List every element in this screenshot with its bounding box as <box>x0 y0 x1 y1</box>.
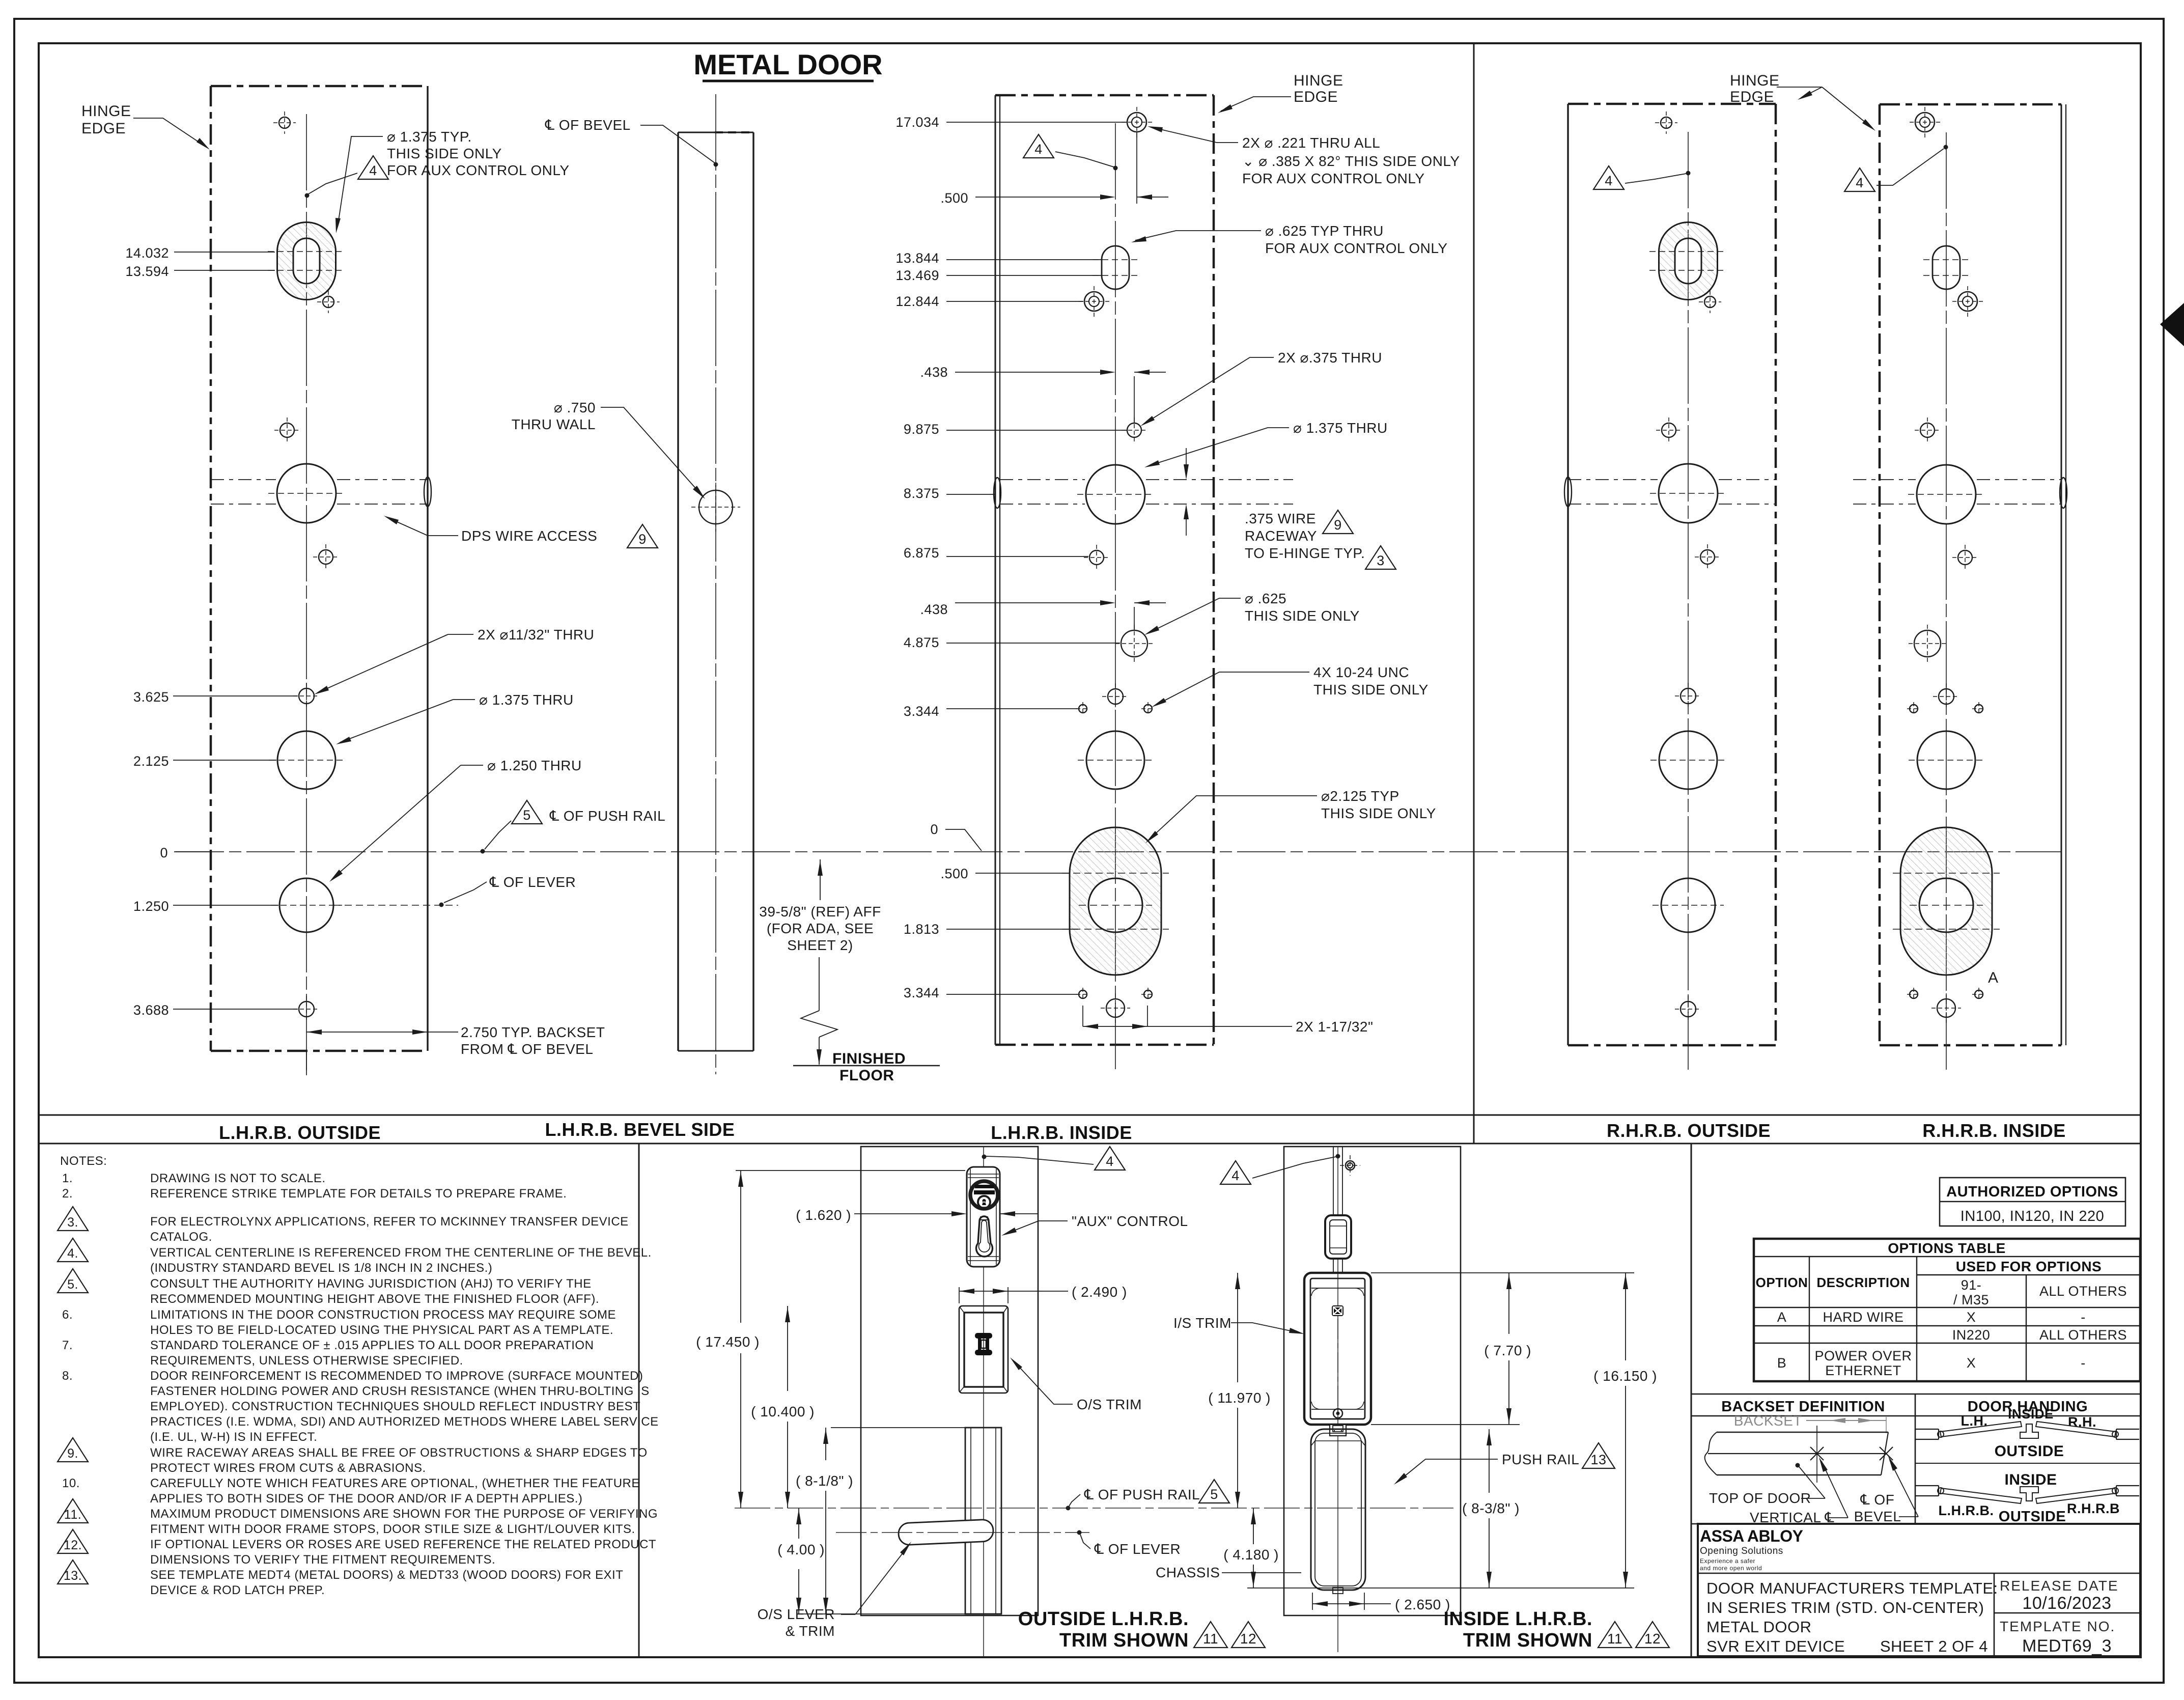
L.H.R.B. INSIDE screw 10-24 lower left <box>1079 990 1087 998</box>
R.H.R.B. OUTSIDE DPS wire access circle 1.375 <box>1659 464 1718 523</box>
svg-text:LIMITATIONS IN THE DOOR CONSTR: LIMITATIONS IN THE DOOR CONSTRUCTION PRO… <box>150 1308 616 1322</box>
svg-text:( 10.400 ): ( 10.400 ) <box>751 1404 815 1419</box>
svg-text:⌀ 1.375 THRU: ⌀ 1.375 THRU <box>1293 420 1388 436</box>
svg-text:(INDUSTRY STANDARD BEVEL IS 1/: (INDUSTRY STANDARD BEVEL IS 1/8 INCH IN … <box>150 1261 492 1275</box>
L.H.R.B. OUTSIDE hole 11/32 at 9.875 <box>280 423 294 437</box>
svg-text:4: 4 <box>1856 175 1864 190</box>
svg-text:& TRIM: & TRIM <box>786 1623 835 1639</box>
svg-text:11: 11 <box>1607 1631 1622 1647</box>
svg-text:METAL DOOR: METAL DOOR <box>1706 1618 1812 1636</box>
svg-text:( 8-1/8" ): ( 8-1/8" ) <box>796 1473 853 1489</box>
svg-text:12.844: 12.844 <box>895 294 939 309</box>
svg-text:℄ OF LEVER: ℄ OF LEVER <box>489 874 576 890</box>
svg-text:7.: 7. <box>62 1339 73 1352</box>
svg-text:EDGE: EDGE <box>81 120 126 137</box>
svg-text:39-5/8" (REF) AFF: 39-5/8" (REF) AFF <box>759 904 881 919</box>
svg-text:TOP OF DOOR: TOP OF DOOR <box>1709 1490 1811 1506</box>
svg-text:2X 1-17/32": 2X 1-17/32" <box>1296 1019 1373 1035</box>
svg-text:X: X <box>1967 1309 1976 1325</box>
R.H.R.B. INSIDE screw 10-24 right <box>1975 705 1983 713</box>
svg-text:INSIDE: INSIDE <box>2004 1471 2057 1488</box>
L.H.R.B. INSIDE vertical centerline <box>1115 123 1116 1069</box>
L.H.R.B. INSIDE hole .375 at 6.875 <box>1089 550 1104 565</box>
R.H.R.B. INSIDE aux screw washer lower <box>1958 292 1977 311</box>
L.H.R.B. INSIDE wire raceway lower line <box>1000 504 1085 505</box>
svg-text:RELEASE DATE: RELEASE DATE <box>2000 1578 2119 1594</box>
backset-handing header boxes <box>1691 1394 2140 1395</box>
svg-text:THIS SIDE ONLY: THIS SIDE ONLY <box>1245 608 1360 624</box>
svg-text:FASTENER HOLDING POWER AND CRU: FASTENER HOLDING POWER AND CRUSH RESISTA… <box>150 1384 650 1398</box>
svg-text:DOOR MANUFACTURERS TEMPLATE:: DOOR MANUFACTURERS TEMPLATE: <box>1706 1579 1998 1597</box>
svg-text:THRU WALL: THRU WALL <box>512 416 596 432</box>
svg-text:10.: 10. <box>62 1476 80 1490</box>
L.H.R.B. OUTSIDE screw hole .221 upper <box>279 117 290 128</box>
svg-text:O/S TRIM: O/S TRIM <box>1077 1397 1142 1412</box>
bevel side left edge <box>677 132 679 1051</box>
svg-text:FOR AUX CONTROL ONLY: FOR AUX CONTROL ONLY <box>1265 240 1448 256</box>
svg-text:"AUX" CONTROL: "AUX" CONTROL <box>1072 1213 1188 1229</box>
svg-text:℄ OF PUSH RAIL: ℄ OF PUSH RAIL <box>549 808 665 824</box>
svg-text:5: 5 <box>523 807 531 823</box>
inside trim centerline <box>1337 1147 1338 1652</box>
svg-text:ALL OTHERS: ALL OTHERS <box>2039 1327 2127 1343</box>
svg-text:.438: .438 <box>920 602 948 617</box>
svg-text:APPLIES TO BOTH SIDES OF THE D: APPLIES TO BOTH SIDES OF THE DOOR AND/OR… <box>150 1492 582 1506</box>
svg-text:13: 13 <box>1590 1452 1606 1467</box>
svg-text:METAL DOOR: METAL DOOR <box>693 48 882 80</box>
svg-text:FLOOR: FLOOR <box>839 1067 894 1084</box>
dim .438 arrows lower <box>1100 600 1115 605</box>
svg-text:DPS WIRE ACCESS: DPS WIRE ACCESS <box>461 528 597 544</box>
svg-text:TO E-HINGE TYP.: TO E-HINGE TYP. <box>1245 545 1365 561</box>
svg-text:9.: 9. <box>67 1446 78 1461</box>
R.H.R.B. INSIDE hinge edge (dashed) <box>1879 104 1881 1045</box>
svg-text:1.: 1. <box>62 1172 73 1185</box>
R.H.R.B. OUTSIDE screw hole .221 upper <box>1661 117 1672 128</box>
svg-text:( 4.00 ): ( 4.00 ) <box>777 1542 825 1557</box>
svg-text:CONSULT THE AUTHORITY HAVING J: CONSULT THE AUTHORITY HAVING JURISDICTIO… <box>150 1277 592 1291</box>
svg-text:2.125: 2.125 <box>133 754 169 769</box>
svg-text:3.625: 3.625 <box>133 689 169 705</box>
R.H.R.B. INSIDE chassis hole 1.375 at 8.375 <box>1917 465 1976 524</box>
R.H.R.B. OUTSIDE wire raceway lower line <box>1568 504 1658 505</box>
svg-text:⌀ .625 TYP THRU: ⌀ .625 TYP THRU <box>1265 223 1384 239</box>
L.H.R.B. INSIDE hole 1.375 at 2.125 <box>1086 731 1144 789</box>
svg-text:IN100, IN120, IN 220: IN100, IN120, IN 220 <box>1961 1208 2104 1224</box>
svg-text:( 11.970 ): ( 11.970 ) <box>1208 1390 1271 1406</box>
svg-text:CAREFULLY NOTE WHICH FEATURES: CAREFULLY NOTE WHICH FEATURES ARE OPTION… <box>150 1476 640 1490</box>
R.H.R.B. INSIDE vertical centerline <box>1946 132 1947 1070</box>
svg-text:DOOR REINFORCEMENT IS RECOMMEN: DOOR REINFORCEMENT IS RECOMMENDED TO IMP… <box>150 1369 643 1383</box>
O/S trim box <box>959 1306 1008 1393</box>
svg-text:EDGE: EDGE <box>1294 89 1338 105</box>
AFF dimension line lower with break <box>819 957 820 1011</box>
L.H.R.B. OUTSIDE wire raceway lower line <box>211 504 276 505</box>
bevel side bottom edge <box>678 1050 753 1052</box>
svg-text:DRAWING IS NOT TO SCALE.: DRAWING IS NOT TO SCALE. <box>150 1172 326 1185</box>
L.H.R.B. OUTSIDE hinge edge (dashed) <box>210 86 212 1051</box>
svg-text:12: 12 <box>1240 1631 1256 1647</box>
R.H.R.B. OUTSIDE hole 11/32 at 3.688 <box>1681 1001 1696 1017</box>
svg-text:.438: .438 <box>920 365 948 380</box>
svg-text:NOTES:: NOTES: <box>60 1154 107 1168</box>
svg-text:O/S LEVER: O/S LEVER <box>758 1606 835 1622</box>
svg-text:9: 9 <box>638 532 647 547</box>
svg-text:/ M35: / M35 <box>1953 1292 1989 1307</box>
R.H.R.B. OUTSIDE hole 11/32 at 6.875 <box>1700 550 1715 564</box>
L.H.R.B. INSIDE hole .625 at 4.875 <box>1121 630 1147 657</box>
svg-text:3.: 3. <box>67 1215 78 1230</box>
svg-text:HINGE: HINGE <box>81 103 131 120</box>
inside trim door stile <box>1284 1147 1461 1615</box>
svg-text:FOR AUX CONTROL ONLY: FOR AUX CONTROL ONLY <box>1242 171 1425 186</box>
L.H.R.B. OUTSIDE raceway end ellipse on lock edge <box>424 477 431 507</box>
lever centerline <box>836 1532 1089 1533</box>
svg-text:FOR AUX CONTROL ONLY: FOR AUX CONTROL ONLY <box>387 162 570 178</box>
outside trim centerline <box>983 1147 984 1657</box>
L.H.R.B. OUTSIDE wire raceway upper line <box>211 479 276 480</box>
L.H.R.B. INSIDE aux screw washer lower <box>1084 292 1104 311</box>
svg-text:.500: .500 <box>940 190 968 206</box>
svg-text:A: A <box>1988 969 1999 986</box>
svg-text:IF OPTIONAL LEVERS OR ROSES AR: IF OPTIONAL LEVERS OR ROSES ARE USED REF… <box>150 1538 656 1551</box>
svg-text:4: 4 <box>1034 142 1043 157</box>
svg-text:FINISHED: FINISHED <box>832 1050 906 1067</box>
outside lever <box>898 1519 994 1545</box>
bevel centerline <box>715 94 716 1074</box>
svg-text:3: 3 <box>1377 553 1385 568</box>
svg-text:VERTICAL CENTERLINE IS REFEREN: VERTICAL CENTERLINE IS REFERENCED FROM T… <box>150 1246 652 1260</box>
R.H.R.B. INSIDE screw 10-24 left <box>1910 705 1918 713</box>
svg-text:L.H.R.B. OUTSIDE: L.H.R.B. OUTSIDE <box>219 1122 381 1143</box>
R.H.R.B. INSIDE hole .375 at 6.875 <box>1958 550 1972 565</box>
push-rail centerline y=0 across sheet <box>176 851 2062 852</box>
svg-text:⌀2.125 TYP: ⌀2.125 TYP <box>1321 788 1399 804</box>
svg-text:TEMPLATE NO.: TEMPLATE NO. <box>2000 1619 2115 1634</box>
backset door section <box>1705 1432 1717 1475</box>
svg-text:R.H.R.B. INSIDE: R.H.R.B. INSIDE <box>1922 1120 2066 1141</box>
svg-text:Opening Solutions: Opening Solutions <box>1700 1546 1783 1556</box>
svg-text:AUTHORIZED OPTIONS: AUTHORIZED OPTIONS <box>1946 1184 2118 1200</box>
svg-text:4: 4 <box>1106 1154 1114 1169</box>
inside aux device <box>1333 1147 1334 1214</box>
svg-text:13.844: 13.844 <box>895 250 939 266</box>
svg-text:⌄ ⌀ .385 X 82° THIS SIDE ONLY: ⌄ ⌀ .385 X 82° THIS SIDE ONLY <box>1242 153 1460 169</box>
L.H.R.B. OUTSIDE screw hole .221 lower <box>323 296 334 308</box>
dim 2.750 backset <box>306 1051 307 1074</box>
svg-text:4X 10-24 UNC: 4X 10-24 UNC <box>1313 664 1409 680</box>
L.H.R.B. INSIDE raceway end ellipse <box>994 478 1001 508</box>
svg-text:.500: .500 <box>940 866 968 881</box>
R.H.R.B. INSIDE wire raceway upper line <box>1853 479 1916 480</box>
L.H.R.B. INSIDE lever oval centerline dashes <box>1062 873 1169 874</box>
L.H.R.B. INSIDE panel top edge <box>995 94 1214 97</box>
svg-text:10/16/2023: 10/16/2023 <box>2022 1594 2111 1613</box>
raceway dim arrows <box>1186 448 1187 475</box>
svg-text:DEVICE & ROD LATCH PREP.: DEVICE & ROD LATCH PREP. <box>150 1583 325 1597</box>
svg-text:5.: 5. <box>67 1277 78 1292</box>
L.H.R.B. OUTSIDE DPS wire access circle 1.375 <box>277 464 336 523</box>
svg-text:-: - <box>2081 1355 2086 1371</box>
svg-text:.375 WIRE: .375 WIRE <box>1245 511 1316 526</box>
svg-text:HINGE: HINGE <box>1730 72 1780 89</box>
svg-text:REFERENCE STRIKE TEMPLATE FOR: REFERENCE STRIKE TEMPLATE FOR DETAILS TO… <box>150 1187 567 1201</box>
svg-text:13.594: 13.594 <box>125 264 169 279</box>
svg-text:⌀ 1.250 THRU: ⌀ 1.250 THRU <box>487 758 582 773</box>
R.H.R.B. INSIDE screw hole bottom center <box>1937 999 1955 1017</box>
svg-text:13.: 13. <box>64 1569 82 1583</box>
svg-text:USED FOR OPTIONS: USED FOR OPTIONS <box>1956 1259 2102 1274</box>
svg-text:⌀ .750: ⌀ .750 <box>554 400 596 415</box>
R.H.R.B. OUTSIDE oval centerline dashes <box>1649 251 1727 252</box>
triangle 4 flag inside trim <box>1220 1161 1251 1184</box>
svg-text:9: 9 <box>1334 517 1342 533</box>
L.H.R.B. INSIDE lock edge double line <box>995 95 996 1045</box>
svg-text:ETHERNET: ETHERNET <box>1825 1363 1901 1378</box>
svg-text:ASSA ABLOY: ASSA ABLOY <box>1700 1527 1803 1545</box>
svg-text:4.: 4. <box>67 1246 78 1261</box>
AFF dimension line upper <box>820 859 821 900</box>
svg-text:( 17.450 ): ( 17.450 ) <box>696 1334 760 1350</box>
R.H.R.B. OUTSIDE panel bottom edge <box>1568 1044 1776 1047</box>
divider notes/trim <box>638 1144 640 1657</box>
svg-text:EDGE: EDGE <box>1730 89 1774 105</box>
svg-text:EMPLOYED). CONSTRUCTION TECHNI: EMPLOYED). CONSTRUCTION TECHNIQUES SHOUL… <box>150 1400 640 1413</box>
L.H.R.B. INSIDE aux screw washer upper <box>1127 113 1146 132</box>
svg-text:Experience a safer: Experience a safer <box>1700 1557 1755 1565</box>
L.H.R.B. OUTSIDE hole 11/32 at 3.688 <box>299 1001 314 1017</box>
svg-text:MEDT69_3: MEDT69_3 <box>2022 1636 2112 1656</box>
svg-text:ALL OTHERS: ALL OTHERS <box>2039 1284 2127 1299</box>
svg-text:HOLES TO BE FIELD-LOCATED USIN: HOLES TO BE FIELD-LOCATED USING THE PHYS… <box>150 1323 613 1337</box>
divider LH/RH views <box>1473 43 1475 1144</box>
svg-text:SEE TEMPLATE MEDT4 (METAL DOOR: SEE TEMPLATE MEDT4 (METAL DOORS) & MEDT3… <box>150 1568 623 1582</box>
bottom extent line <box>1247 1587 1634 1588</box>
dim .500 arrows <box>1136 131 1137 204</box>
svg-text:17.034: 17.034 <box>895 115 939 130</box>
svg-text:⌀ 1.375 TYP.: ⌀ 1.375 TYP. <box>387 129 472 145</box>
svg-text:OUTSIDE L.H.R.B.: OUTSIDE L.H.R.B. <box>1018 1608 1189 1630</box>
dim .438 arrows top <box>1100 370 1115 375</box>
L.H.R.B. INSIDE screw 10-24 left <box>1079 705 1087 713</box>
svg-text:1.250: 1.250 <box>133 899 169 914</box>
triangle 4 flag R.OUT <box>1593 166 1624 189</box>
outside push rail <box>965 1428 1001 1614</box>
svg-text:8.: 8. <box>62 1369 73 1383</box>
svg-text:INSIDE: INSIDE <box>2008 1406 2054 1422</box>
svg-text:THIS SIDE ONLY: THIS SIDE ONLY <box>1321 805 1436 821</box>
svg-text:FROM ℄ OF BEVEL: FROM ℄ OF BEVEL <box>461 1041 593 1057</box>
L.H.R.B. OUTSIDE vertical centerline <box>306 114 307 1075</box>
svg-text:BEVEL: BEVEL <box>1854 1509 1901 1524</box>
R.H.R.B. INSIDE hole at 3.344 center <box>1939 689 1954 704</box>
svg-text:TRIM SHOWN: TRIM SHOWN <box>1463 1630 1592 1651</box>
svg-text:( 1.620 ): ( 1.620 ) <box>796 1207 851 1223</box>
R.H.R.B. INSIDE panel bottom edge <box>1880 1044 2061 1047</box>
L.H.R.B. INSIDE aux oval slot .625 <box>1102 246 1129 289</box>
bevel side top edge <box>678 132 753 133</box>
svg-text:11: 11 <box>1203 1631 1218 1647</box>
R.H.R.B. OUTSIDE vertical centerline <box>1688 132 1689 1070</box>
svg-text:2.: 2. <box>62 1187 73 1201</box>
svg-text:X: X <box>1967 1355 1976 1371</box>
R.H.R.B. INSIDE lever prep hatched oval 2.125 <box>1900 827 1992 975</box>
svg-text:8.375: 8.375 <box>904 486 939 501</box>
I/S trim box <box>1304 1273 1371 1425</box>
R.H.R.B. OUTSIDE hole 11/32 at 9.875 <box>1662 423 1676 437</box>
triangle 4 flag L.IN <box>1023 134 1054 158</box>
svg-text:9.875: 9.875 <box>904 422 939 437</box>
inside push rail <box>1311 1429 1365 1590</box>
R.H.R.B. INSIDE aux screw washer upper <box>1915 113 1935 132</box>
svg-text:℄ OF BEVEL: ℄ OF BEVEL <box>545 117 631 133</box>
svg-text:3.344: 3.344 <box>904 704 939 719</box>
svg-text:WIRE RACEWAY AREAS SHALL BE FR: WIRE RACEWAY AREAS SHALL BE FREE OF OBST… <box>150 1446 648 1460</box>
svg-text:PRACTICES (I.E. WDMA, SDI) AND: PRACTICES (I.E. WDMA, SDI) AND AUTHORIZE… <box>150 1415 659 1429</box>
inside trim top screw <box>1346 1161 1355 1170</box>
svg-text:IN SERIES TRIM (STD. ON-CENTER: IN SERIES TRIM (STD. ON-CENTER) <box>1706 1599 1984 1617</box>
triangle 4 flag R.IN <box>1844 168 1875 191</box>
view label strip bottom line <box>39 1143 2141 1145</box>
svg-text:and more open world: and more open world <box>1700 1565 1762 1572</box>
L.H.R.B. OUTSIDE aux control hatched oval 1.375 <box>277 222 336 299</box>
svg-text:2X ⌀.375 THRU: 2X ⌀.375 THRU <box>1278 350 1382 366</box>
R.H.R.B. INSIDE aux oval slot .625 <box>1933 246 1960 289</box>
dim 2X 1-17/32 <box>1082 1006 1083 1026</box>
R.H.R.B. OUTSIDE hole 1.250 lever at 1.250 <box>1661 878 1715 932</box>
svg-text:12: 12 <box>1644 1631 1661 1647</box>
svg-text:REQUIREMENTS, UNLESS OTHERWISE: REQUIREMENTS, UNLESS OTHERWISE SPECIFIED… <box>150 1354 463 1368</box>
svg-text:0: 0 <box>160 845 168 860</box>
svg-text:INSIDE L.H.R.B.: INSIDE L.H.R.B. <box>1443 1608 1592 1630</box>
svg-text:HINGE: HINGE <box>1294 72 1343 89</box>
svg-text:91-: 91- <box>1961 1277 1982 1293</box>
svg-text:(I.E. UL, W-H) IS IN EFFECT.: (I.E. UL, W-H) IS IN EFFECT. <box>150 1430 317 1444</box>
dim 2.490 <box>959 1287 960 1303</box>
svg-text:℄ OF PUSH RAIL: ℄ OF PUSH RAIL <box>1084 1487 1200 1502</box>
svg-text:SHEET 2 OF 4: SHEET 2 OF 4 <box>1880 1637 1988 1655</box>
svg-text:SHEET 2): SHEET 2) <box>787 937 853 953</box>
svg-text:1.813: 1.813 <box>904 922 939 937</box>
svg-text:℄ OF: ℄ OF <box>1860 1492 1895 1508</box>
svg-text:( 2.650 ): ( 2.650 ) <box>1395 1597 1450 1612</box>
svg-text:RECOMMENDED MOUNTING HEIGHT AB: RECOMMENDED MOUNTING HEIGHT ABOVE THE FI… <box>150 1292 599 1306</box>
svg-text:4: 4 <box>369 163 377 178</box>
svg-text:( 4.180 ): ( 4.180 ) <box>1223 1547 1279 1563</box>
R.H.R.B. INSIDE hole .375 at 9.875 <box>1920 423 1935 437</box>
svg-text:℄ OF LEVER: ℄ OF LEVER <box>1094 1541 1181 1557</box>
backset X marks <box>1810 1447 1824 1460</box>
push rail centerline trim views <box>735 1508 1453 1509</box>
outside trim door stile <box>861 1147 1038 1615</box>
view label strip top line <box>39 1114 2141 1116</box>
callout CL of push rail <box>512 800 542 824</box>
svg-text:PUSH RAIL: PUSH RAIL <box>1502 1452 1579 1467</box>
R.H.R.B. INSIDE hole .625 at 4.875 <box>1914 630 1941 657</box>
svg-text:L.H.R.B. BEVEL SIDE: L.H.R.B. BEVEL SIDE <box>545 1119 735 1140</box>
zone marker arrow right edge <box>2160 303 2184 346</box>
svg-text:STANDARD TOLERANCE OF ± .015 A: STANDARD TOLERANCE OF ± .015 APPLIES TO … <box>150 1339 594 1352</box>
svg-text:THIS SIDE ONLY: THIS SIDE ONLY <box>1313 682 1429 698</box>
svg-text:OUTSIDE: OUTSIDE <box>1999 1509 2066 1525</box>
options table grid <box>1754 1239 2140 1381</box>
svg-text:11.: 11. <box>64 1508 81 1522</box>
L.H.R.B. OUTSIDE hole 1.250 lever at 1.250 <box>279 878 333 932</box>
svg-text:TRIM SHOWN: TRIM SHOWN <box>1059 1630 1189 1651</box>
svg-text:( 16.150 ): ( 16.150 ) <box>1593 1368 1657 1384</box>
L.H.R.B. INSIDE hole .375 at 9.875 <box>1127 423 1141 437</box>
R.H.R.B. OUTSIDE hole 11/32 at 3.625 <box>1681 688 1696 704</box>
R.H.R.B. INSIDE lever oval centerline dashes <box>1893 873 2000 874</box>
svg-text:DIMENSIONS TO VERIFY THE FITME: DIMENSIONS TO VERIFY THE FITMENT REQUIRE… <box>150 1553 495 1567</box>
L.H.R.B. INSIDE screw hole bottom center <box>1106 999 1125 1017</box>
L.H.R.B. OUTSIDE panel bottom edge <box>211 1050 428 1052</box>
svg-text:FOR ELECTROLYNX APPLICATIONS,: FOR ELECTROLYNX APPLICATIONS, REFER TO M… <box>150 1215 629 1229</box>
svg-text:R.H.R.B: R.H.R.B <box>2067 1501 2120 1516</box>
svg-text:POWER OVER: POWER OVER <box>1814 1348 1912 1363</box>
R.H.R.B. OUTSIDE panel top edge <box>1568 103 1776 105</box>
L.H.R.B. INSIDE lever prep hatched oval 2.125 <box>1070 827 1161 975</box>
L.H.R.B. OUTSIDE oval centerline dashes <box>268 251 345 252</box>
svg-text:OUTSIDE: OUTSIDE <box>1995 1443 2064 1460</box>
svg-text:4: 4 <box>1231 1168 1240 1183</box>
bevel thru-wall hole .750 <box>699 490 733 524</box>
L.H.R.B. OUTSIDE lock edge (solid) <box>427 86 428 1051</box>
R.H.R.B. OUTSIDE hinge edge (dashed) <box>1775 104 1777 1045</box>
svg-text:BACKSET: BACKSET <box>1734 1413 1802 1429</box>
L.H.R.B. OUTSIDE hole 1.375 at 2.125 <box>277 731 335 789</box>
svg-text:L.H.R.B.: L.H.R.B. <box>1939 1503 1994 1518</box>
divider trim/title <box>1691 1144 1692 1657</box>
R.H.R.B. INSIDE hole 1.375 at 2.125 <box>1917 731 1975 789</box>
R.H.R.B. OUTSIDE hole 1.375 at 2.125 <box>1659 731 1717 789</box>
R.H.R.B. OUTSIDE lock edge (solid) <box>1567 104 1569 1045</box>
svg-text:(FOR ADA, SEE: (FOR ADA, SEE <box>767 921 874 936</box>
svg-text:RACEWAY: RACEWAY <box>1245 528 1317 544</box>
title block frame <box>1698 1524 2140 1656</box>
door handing separator <box>1915 1463 2140 1464</box>
I/S trim centerline dash <box>1337 1319 1338 1420</box>
svg-text:2X ⌀11/32" THRU: 2X ⌀11/32" THRU <box>478 627 594 643</box>
backset vertical CL <box>1816 1426 1817 1483</box>
svg-text:MAXIMUM PRODUCT DIMENSIONS ARE: MAXIMUM PRODUCT DIMENSIONS ARE SHOWN FOR… <box>150 1507 658 1521</box>
R.H.R.B. OUTSIDE aux control hatched oval 1.375 <box>1659 222 1718 299</box>
svg-text:-: - <box>2081 1309 2086 1325</box>
svg-text:CHASSIS: CHASSIS <box>1156 1565 1220 1580</box>
L.H.R.B. INSIDE hole at 3.344 center <box>1108 689 1123 704</box>
R.H.R.B. INSIDE screw 10-24 lower right <box>1975 990 1983 998</box>
svg-text:0: 0 <box>930 822 938 837</box>
R.H.R.B. INSIDE raceway end ellipse <box>2060 478 2067 508</box>
svg-text:B: B <box>1777 1355 1787 1371</box>
triangle note 4 flag L.OUT <box>358 156 388 179</box>
svg-text:THIS SIDE ONLY: THIS SIDE ONLY <box>387 146 502 161</box>
aux control device <box>967 1167 1000 1267</box>
R.H.R.B. INSIDE wire raceway lower line <box>1853 504 1916 505</box>
R.H.R.B. OUTSIDE screw hole .221 lower <box>1704 296 1716 308</box>
R.H.R.B. INSIDE panel top edge <box>1880 103 2061 106</box>
svg-text:⌀ .625: ⌀ .625 <box>1245 591 1286 606</box>
svg-text:L.H.R.B. INSIDE: L.H.R.B. INSIDE <box>991 1122 1132 1143</box>
svg-text:6.: 6. <box>62 1308 73 1322</box>
svg-text:HARD WIRE: HARD WIRE <box>1823 1309 1904 1325</box>
L.H.R.B. INSIDE wire raceway upper line <box>1000 479 1085 480</box>
svg-text:14.032: 14.032 <box>125 245 169 261</box>
svg-text:3.688: 3.688 <box>133 1002 169 1018</box>
triangle 4 flag outside trim <box>1095 1147 1125 1170</box>
svg-text:6.875: 6.875 <box>904 545 939 561</box>
L.H.R.B. INSIDE screw 10-24 right <box>1144 705 1152 713</box>
